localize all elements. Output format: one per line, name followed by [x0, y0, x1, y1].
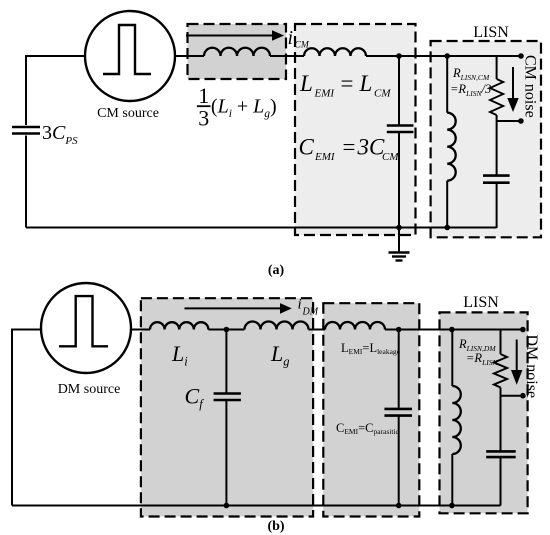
- svg-text:CM: CM: [295, 41, 310, 51]
- svg-text:LISN: LISN: [463, 294, 499, 311]
- svg-text:1: 1: [198, 83, 209, 108]
- svg-text:CEMI=3CCM: CEMI=3CCM: [299, 135, 400, 164]
- svg-text:(b): (b): [267, 519, 284, 534]
- svg-text:3CPS: 3CPS: [42, 122, 78, 147]
- svg-text:i: i: [298, 297, 302, 313]
- svg-text:(a): (a): [268, 263, 285, 278]
- svg-text:DM source: DM source: [58, 382, 121, 397]
- svg-text:DM noise: DM noise: [523, 335, 540, 399]
- svg-text:CM noise: CM noise: [522, 55, 539, 118]
- svg-text:LISN: LISN: [473, 24, 509, 41]
- svg-text:DM: DM: [302, 307, 319, 318]
- svg-text:(Li + Lg): (Li + Lg): [211, 95, 277, 120]
- svg-text:3: 3: [198, 106, 209, 131]
- svg-text:i: i: [288, 27, 294, 49]
- svg-text:CM source: CM source: [97, 106, 159, 121]
